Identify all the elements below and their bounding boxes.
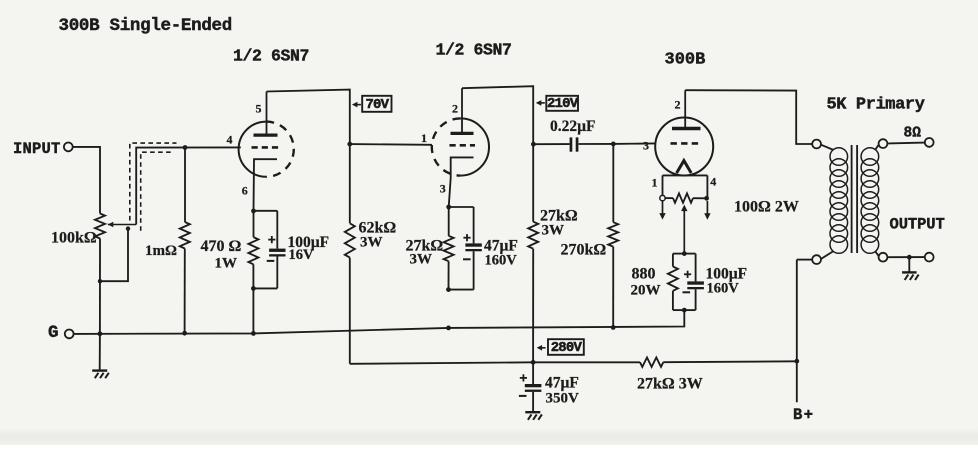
svg-text:OUTPUT: OUTPUT <box>890 216 945 234</box>
svg-text:1/2 6SN7: 1/2 6SN7 <box>233 47 309 66</box>
junction coupling node <box>531 142 536 147</box>
svg-text:270kΩ: 270kΩ <box>561 242 607 259</box>
svg-text:1: 1 <box>421 131 427 145</box>
resistor R6 27k 3W plate <box>528 208 578 363</box>
voltage label 210V <box>536 96 579 112</box>
junction 880 bottom <box>682 308 687 313</box>
output low terminal <box>925 253 934 262</box>
T1 primary winding <box>821 145 848 259</box>
junction cathode2 bottom <box>446 287 451 292</box>
junction cathode2 top <box>446 205 451 210</box>
svg-text:2: 2 <box>452 102 458 116</box>
T1 secondary winding <box>861 145 879 257</box>
svg-text:100kΩ: 100kΩ <box>51 230 97 247</box>
svg-text:3W: 3W <box>360 235 383 251</box>
resistor R9 27k 3W label <box>637 376 703 393</box>
tube V2 1/2 6SN7 <box>432 41 512 176</box>
filament arrow left <box>659 201 665 220</box>
svg-text:0.22µF: 0.22µF <box>550 118 596 135</box>
junction 270k-bus <box>611 325 616 330</box>
junction cathode2-bus <box>446 326 451 331</box>
resistor R2 1m grid <box>145 145 190 333</box>
svg-text:8Ω: 8Ω <box>904 126 922 142</box>
svg-text:280V: 280V <box>551 340 583 356</box>
capacitor C3 0.22uF <box>533 118 613 152</box>
svg-text:27kΩ 3W: 27kΩ 3W <box>637 376 703 393</box>
potentiometer VR2 100R 2W <box>665 193 799 215</box>
ground at output <box>902 257 919 280</box>
V3 pin 3 <box>643 139 649 153</box>
svg-text:5K Primary: 5K Primary <box>827 96 925 115</box>
junction cathode1 bottom <box>251 286 256 291</box>
svg-text:16V: 16V <box>289 247 315 263</box>
B+ bus <box>350 358 797 367</box>
B+ terminal <box>793 260 815 424</box>
V1 pin 6 <box>242 184 248 198</box>
svg-text:G: G <box>48 323 59 343</box>
resistor R7 270k <box>561 144 619 328</box>
shield dashed inner <box>141 152 173 231</box>
ground below C5 <box>525 412 542 420</box>
V2 pin 1 <box>421 131 427 145</box>
junction cathode1 top <box>251 209 256 214</box>
T1 core <box>852 145 858 253</box>
wire 300B grid <box>613 142 655 145</box>
V1 plate <box>254 92 278 136</box>
transformer T1 label <box>827 96 925 115</box>
title <box>59 16 232 36</box>
svg-text:160V: 160V <box>707 281 740 297</box>
V2 pin 2 <box>452 102 458 116</box>
V2 pin 3 <box>440 182 446 196</box>
junction cathode1-bus <box>251 331 256 336</box>
voltage label 70V <box>352 96 392 113</box>
voltage label 280V <box>537 339 584 356</box>
V1 cathode <box>254 159 278 211</box>
svg-text:1: 1 <box>652 176 658 190</box>
V1 grid <box>252 146 280 149</box>
V3 plate <box>672 90 701 128</box>
pot left terminal <box>660 195 665 200</box>
capacitor C5 47uF 350V <box>519 362 579 411</box>
wire pot to G bus <box>99 239 101 370</box>
shield dashed outer <box>130 143 177 220</box>
svg-text:100Ω 2W: 100Ω 2W <box>734 199 799 216</box>
ground below pot <box>92 371 109 379</box>
V3 pin 2 <box>675 98 681 112</box>
svg-text:2: 2 <box>675 98 681 112</box>
svg-text:4: 4 <box>710 175 716 189</box>
svg-text:470 Ω: 470 Ω <box>201 238 242 255</box>
wire V1 plate top <box>267 90 350 224</box>
wire V2 grid <box>350 143 432 146</box>
junction 300B grid node <box>611 142 616 147</box>
primary bottom terminal <box>797 255 821 264</box>
wire input to pot <box>73 147 100 214</box>
svg-text:70V: 70V <box>365 97 389 113</box>
resistor R5 27k 3W cathode <box>406 207 454 290</box>
secondary bottom terminal <box>879 253 888 262</box>
junction 880 top <box>682 251 687 256</box>
V1 pin 4 <box>227 133 233 147</box>
V2 plate <box>451 88 474 133</box>
tube V1 1/2 6SN7 <box>233 47 309 177</box>
primary top terminal <box>812 140 821 149</box>
svg-text:3W: 3W <box>410 252 433 268</box>
svg-text:3: 3 <box>643 139 649 153</box>
OUTPUT label <box>890 216 945 234</box>
junction B+ <box>794 359 799 364</box>
svg-text:880: 880 <box>632 266 656 283</box>
V3 filament <box>677 161 692 173</box>
pot wiper arrow <box>108 222 136 228</box>
wire 300B plate to primary <box>685 90 812 144</box>
8ohm output terminal <box>925 138 934 147</box>
svg-text:3: 3 <box>440 182 446 196</box>
svg-text:5: 5 <box>256 102 262 116</box>
svg-text:3W: 3W <box>542 223 565 239</box>
svg-text:300B Single-Ended: 300B Single-Ended <box>59 16 232 36</box>
tube V3 300B <box>655 51 713 176</box>
wire wiper to grid <box>136 147 241 224</box>
V3 grid dashes <box>671 142 700 145</box>
svg-text:1/2 6SN7: 1/2 6SN7 <box>436 41 512 60</box>
svg-text:4: 4 <box>227 133 233 147</box>
svg-text:INPUT: INPUT <box>13 140 61 158</box>
V2 cathode <box>449 157 474 207</box>
wire to 8ohm terminal <box>887 126 925 144</box>
svg-text:210V: 210V <box>547 96 579 112</box>
svg-text:6: 6 <box>242 184 248 198</box>
V3 pin 4 <box>710 175 716 189</box>
shield ground wire <box>98 226 130 283</box>
svg-text:B+: B+ <box>793 406 815 424</box>
wire V2 plate top <box>462 86 533 222</box>
capacitor C2 47uF 160V <box>449 207 518 290</box>
svg-text:1mΩ: 1mΩ <box>145 243 177 259</box>
capacitor C4 100uF 160V <box>683 254 748 311</box>
potentiometer VR1 100k <box>51 214 105 247</box>
capacitor C1 100uF 16V <box>253 211 329 289</box>
resistor R4 62k 3W <box>345 220 397 364</box>
input terminal <box>13 140 73 158</box>
ground bus <box>74 310 685 334</box>
V3 pin 1 <box>652 176 658 190</box>
filament arrow right <box>704 201 710 220</box>
junction 280V node <box>531 360 536 365</box>
resistor R8 880 20W <box>631 254 685 311</box>
V2 grid dashes <box>450 144 476 147</box>
svg-text:160V: 160V <box>485 253 518 269</box>
svg-text:1W: 1W <box>215 256 238 272</box>
G terminal <box>48 323 74 343</box>
svg-text:350V: 350V <box>546 391 580 407</box>
svg-text:47µF: 47µF <box>545 375 579 392</box>
resistor R3 470 1W <box>201 211 259 334</box>
junction V2 grid node <box>347 142 352 147</box>
V1 pin 5 <box>256 102 262 116</box>
junction pot-bus <box>98 331 103 336</box>
pot wiper arrow up <box>681 205 687 254</box>
wire secondary bottom <box>887 255 925 260</box>
secondary top terminal <box>879 139 888 148</box>
svg-text:300B: 300B <box>665 51 706 70</box>
svg-text:20W: 20W <box>631 283 661 299</box>
filament rail <box>663 175 708 198</box>
junction 1meg-bus <box>182 331 187 336</box>
